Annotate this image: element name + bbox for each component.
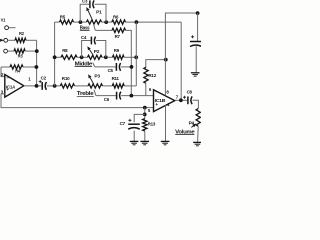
capacitor C2 <box>41 82 43 90</box>
svg-text:R4: R4 <box>15 69 20 75</box>
wiper arrow P2 <box>89 49 93 55</box>
wiper arrow P3 <box>90 78 94 85</box>
wire tap to R7 <box>95 29 112 31</box>
wire to R3 <box>7 50 14 52</box>
svg-text:C8: C8 <box>187 90 193 96</box>
underline Middle <box>75 66 93 68</box>
junction R4-bus <box>35 65 39 69</box>
wire pin3 to bottom bus <box>1 94 154 108</box>
wiper arrow P4 <box>191 126 193 127</box>
wire bass row left <box>55 21 60 23</box>
wire C5 to riser B <box>121 66 131 68</box>
capacitor C6 <box>116 92 118 100</box>
wire V1 stub <box>9 27 16 29</box>
wire tap to C5 <box>95 66 116 68</box>
op-amp IC1A <box>5 75 24 98</box>
svg-text:C4: C4 <box>81 35 87 41</box>
wire tap to C6 <box>96 95 117 97</box>
wire to C7 <box>134 114 145 122</box>
wire V+ rail pin 8 <box>165 13 197 95</box>
wire P2 wiper tap <box>93 63 95 67</box>
wire R2 to bus <box>26 39 37 41</box>
wire C7 to ground <box>133 131 135 142</box>
wire bus vertical <box>36 40 38 86</box>
resistor R13 <box>143 119 147 131</box>
plus C8 <box>183 96 186 99</box>
svg-text:C7: C7 <box>120 121 126 127</box>
wire C6 to pin 6 <box>121 95 153 97</box>
junction feedback-output <box>179 98 183 102</box>
wire R12 top <box>146 60 166 68</box>
junction C3 right <box>104 20 108 24</box>
svg-text:IC1B: IC1B <box>155 98 167 103</box>
svg-text:IC1A: IC1A <box>6 84 16 89</box>
wire to R4 <box>1 66 10 68</box>
junction bus-R13 <box>143 106 147 110</box>
underline Treble <box>77 95 94 97</box>
wire R8 to P2 <box>77 56 88 58</box>
svg-text:R13: R13 <box>148 121 156 126</box>
potentiometer P2 <box>88 55 103 59</box>
wire R12 bottom <box>145 83 147 95</box>
wire R9 to riser A <box>124 56 136 58</box>
junction output node <box>53 84 57 88</box>
resistor R10 <box>60 84 74 88</box>
wire R11 to riser A <box>124 85 136 87</box>
wire rail down to C1 <box>197 13 199 41</box>
wire P3 wiper tap <box>94 90 96 96</box>
ground C7 <box>130 140 139 142</box>
resistor R4 <box>10 65 23 69</box>
capacitor C1 <box>190 41 202 43</box>
wire P1 to R6 <box>102 21 112 23</box>
svg-text:C3: C3 <box>82 0 88 5</box>
svg-text:R6: R6 <box>113 14 119 20</box>
wire P1 wiper tap <box>94 24 96 30</box>
wire P3 to R11 <box>103 85 113 87</box>
resistor R6 <box>112 20 126 24</box>
wire left riser <box>54 22 56 86</box>
junction R3-bus <box>35 49 39 53</box>
op-amp IC1B <box>154 90 175 112</box>
svg-text:R9: R9 <box>114 48 120 54</box>
svg-text:C6: C6 <box>104 97 110 103</box>
terminal V1 <box>5 26 9 30</box>
wire R10 to P3 <box>75 85 89 87</box>
ground R13 <box>140 140 149 142</box>
wire C3 left bracket <box>80 4 89 22</box>
junction C5-riser B <box>130 65 134 69</box>
wire feedback vertical <box>180 22 182 100</box>
wire to R2 <box>7 39 15 41</box>
plus C2 <box>39 80 42 83</box>
wire C3 right bracket <box>95 4 106 22</box>
junction V+ C1 <box>196 11 200 15</box>
wire middle row left <box>55 56 61 58</box>
resistor R9 <box>113 55 125 59</box>
wire pin 7 output <box>175 99 188 101</box>
junction C4 right <box>104 55 108 59</box>
svg-text:R5: R5 <box>60 14 66 20</box>
plus C7 <box>128 119 131 122</box>
wire riser A <box>135 22 137 86</box>
wiper arrow P1 <box>88 10 93 20</box>
svg-text:R7: R7 <box>115 34 121 40</box>
resistor R11 <box>112 84 124 88</box>
wire down to R13 <box>144 108 146 119</box>
svg-text:P3: P3 <box>94 73 100 78</box>
capacitor C8 <box>187 96 189 104</box>
underline Volume <box>175 133 194 135</box>
svg-text:R10: R10 <box>62 76 70 82</box>
wire C1 to ground <box>195 46 197 72</box>
wire pin1 output <box>24 85 42 87</box>
svg-text:P1: P1 <box>96 10 102 15</box>
wire R4 to pin 2 <box>1 67 5 77</box>
ground C1 <box>191 72 200 74</box>
svg-text:C2: C2 <box>41 76 47 82</box>
potentiometer P3 <box>88 84 103 88</box>
wire C4 left bracket <box>82 41 91 58</box>
potentiometer P1 <box>87 20 102 24</box>
wire R3 to bus <box>25 50 36 52</box>
resistor R5 <box>60 20 74 24</box>
resistor R8 <box>61 55 77 59</box>
ground pin 4 <box>161 140 170 142</box>
svg-text:C5: C5 <box>108 68 114 74</box>
wire P2 to R9 <box>102 56 113 58</box>
junction bus-output <box>35 84 39 88</box>
junction riser-middle <box>53 55 57 59</box>
ground P4 <box>193 141 202 143</box>
svg-text:P4: P4 <box>189 121 195 126</box>
junction riser A top <box>135 20 139 24</box>
wire C4 right bracket <box>96 41 106 58</box>
capacitor C7 <box>128 123 140 125</box>
terminal input 2 <box>4 38 8 42</box>
svg-text:R3: R3 <box>18 54 23 60</box>
resistor R7 <box>112 28 126 32</box>
resistor R2 <box>15 38 26 42</box>
capacitor C4 <box>90 37 92 45</box>
resistor R3 <box>14 49 25 53</box>
wire R7 to riser B <box>126 30 132 95</box>
wire pin 4 to ground <box>165 105 167 142</box>
underline Bass <box>80 29 90 31</box>
wire R5 to P1 <box>74 21 87 23</box>
svg-text:V1: V1 <box>1 17 6 23</box>
potentiometer P4 volume <box>196 109 200 127</box>
wire R13 to ground <box>144 131 146 141</box>
resistor R12 <box>144 67 148 83</box>
junction riser A middle <box>134 55 138 59</box>
junction riser B bottom <box>130 94 134 98</box>
terminal input 3 <box>4 49 8 53</box>
junction C3 left <box>79 20 83 24</box>
plus C1 <box>191 35 194 38</box>
capacitor C5 <box>115 63 117 71</box>
wire R4 to bus <box>23 66 37 68</box>
input arrow <box>0 39 4 42</box>
wire bass row to feedback <box>126 21 182 23</box>
wire C2 to R10 <box>47 85 60 87</box>
svg-text:R8: R8 <box>62 48 68 54</box>
junction C7 branch <box>143 113 147 117</box>
capacitor C3 <box>89 0 91 8</box>
svg-text:R12: R12 <box>148 73 156 78</box>
junction C4 left <box>80 55 84 59</box>
junction R12-V+ <box>164 58 168 62</box>
wire C8 to P4 <box>193 100 199 108</box>
svg-text:R2: R2 <box>19 31 24 37</box>
svg-text:R11: R11 <box>112 76 120 82</box>
wire pin 3 stub <box>1 93 5 95</box>
svg-text:P2: P2 <box>94 49 100 54</box>
wire P4 to ground <box>197 126 200 142</box>
